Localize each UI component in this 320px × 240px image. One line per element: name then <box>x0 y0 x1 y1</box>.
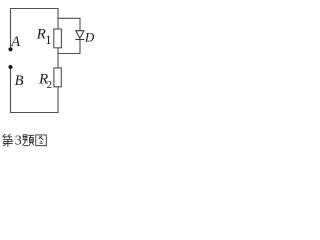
diode D <box>75 31 84 40</box>
wire top <box>11 8 59 10</box>
label R1 <box>36 26 52 47</box>
svg-text:3: 3 <box>15 134 22 149</box>
label R2 <box>38 72 52 91</box>
wire right: R1 to R2 <box>57 48 59 68</box>
wire right: top to R1 <box>57 9 59 30</box>
caption: 第 <box>3 134 13 146</box>
svg-text:2: 2 <box>47 79 53 91</box>
wire diode branch top <box>58 18 80 30</box>
wire left lower <box>10 69 12 113</box>
wire bottom <box>11 112 59 114</box>
caption: 题 <box>23 135 34 146</box>
wire diode branch bottom <box>58 40 80 54</box>
wire left upper <box>10 9 12 49</box>
caption: 图 <box>36 135 47 146</box>
svg-text:B: B <box>15 73 24 89</box>
svg-text:1: 1 <box>45 33 51 47</box>
resistor R1 <box>54 29 62 48</box>
wire right: R2 to bottom <box>57 87 59 113</box>
svg-text:D: D <box>84 29 94 44</box>
node B <box>8 65 12 69</box>
resistor R2 <box>54 68 61 87</box>
svg-text:A: A <box>10 34 20 50</box>
node A <box>8 47 12 51</box>
